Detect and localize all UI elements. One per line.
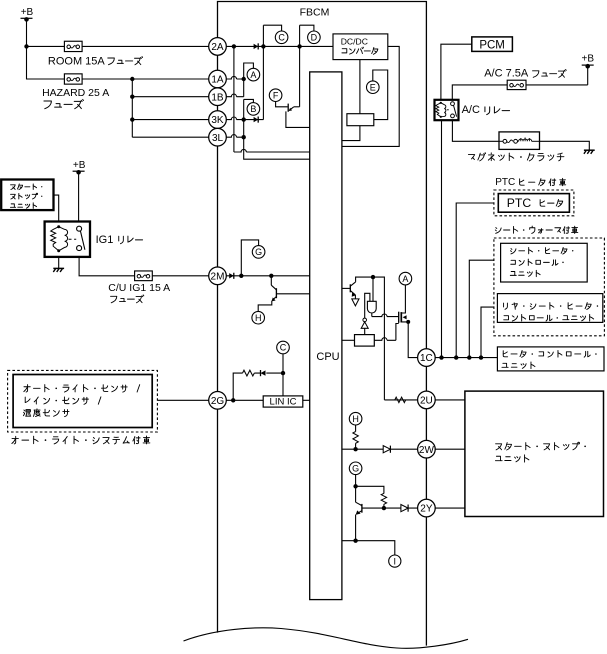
svg-text:2A: 2A (211, 42, 224, 53)
wire: transistor F collector stub from x=299.6 (294, 106, 300, 108)
resistor on 2U line (395, 397, 406, 402)
connector 1B (209, 88, 227, 106)
transistor F emitter arrow (PNP) (290, 107, 293, 110)
wire: sensor box to connector 2G (157, 399, 208, 401)
wire: seat heater control unit lead from 1C row (469, 260, 500, 357)
svg-text:A/C: A/C (462, 104, 480, 116)
ground for IG1 relay (53, 267, 64, 269)
wire: circle F lead to transistor F base (276, 102, 288, 107)
svg-text:G: G (255, 247, 262, 257)
wire: Q3 collector to gate rail y=277.1 (356, 277, 385, 400)
svg-text:H: H (352, 414, 359, 424)
diode after 2M connector (229, 273, 234, 278)
node circle C (top) (275, 31, 288, 44)
wire: transistor Q3 base from CPU (342, 287, 350, 289)
wire: circle H(lower) through resistor to 2W line (355, 425, 357, 449)
svg-text:3L: 3L (212, 133, 224, 144)
svg-text:IG1: IG1 (96, 234, 114, 246)
svg-text:1A: 1A (211, 75, 224, 86)
wire: 2Y row to connector and start-stop unit (384, 507, 418, 509)
svg-text:3K: 3K (211, 115, 224, 126)
internal relay box of DC/DC (347, 114, 374, 126)
wire: row 1A with hop over x=233.9 (226, 76, 243, 79)
heater control unit box (497, 347, 604, 371)
auto-light sensor inner box (13, 375, 152, 428)
svg-text:E: E (370, 82, 376, 92)
wire: circle G(lower) lead, branch to resistor and transistor Q4 (356, 475, 384, 541)
junction dots on +B / HAZARD bus (24, 44, 28, 48)
connector 2G (209, 392, 227, 410)
magnet clutch symbol (contacts and coil) (499, 140, 503, 142)
wire: D-gate output to MOSFET gate with hop over x=384.4 (371, 313, 373, 316)
fuse C/U IG1 15A (135, 271, 153, 281)
svg-text:1C: 1C (420, 353, 433, 364)
wire: Q3 emitter to down-arrow symbol (354, 295, 356, 299)
wire: +B to ROOM fuse and down to HAZARD fuse (27, 20, 209, 79)
PTC dashed box (494, 190, 574, 216)
svg-text:A/C 7.5A: A/C 7.5A (484, 67, 529, 79)
svg-text:+B: +B (582, 54, 595, 65)
A/C relay box (435, 100, 459, 120)
svg-text:2Y: 2Y (420, 504, 433, 515)
seat heater control unit box (501, 243, 588, 282)
wire: stub to circle D and vertical x=299.6 down to transistor F collector (300, 25, 314, 107)
svg-text:HAZARD 25 A: HAZARD 25 A (42, 87, 109, 99)
node circle H (2W) (349, 412, 362, 425)
wire: transistor (2M) base to CPU (276, 293, 309, 295)
wire: gate rail into D-gate and left loop to zener symbol (365, 277, 373, 335)
node circle G (2Y) (349, 462, 362, 475)
node circle A (MOSFET) (399, 272, 412, 285)
wire: DC/DC right side loop to CPU right edge at y=146.4 (342, 46, 399, 146)
wire: row 3L with hop (226, 135, 243, 138)
resistor R1 (gate resistor, box style) leads with hop (342, 339, 355, 341)
wire: IG1 relay feed from start-stop unit box (54, 195, 59, 227)
label auto-light system (12, 436, 150, 444)
page-break wave at bottom (184, 628, 469, 648)
start-stop unit big box (465, 391, 604, 516)
wire: +B through A/C fuse to relay switch (452, 67, 587, 100)
wire: rear seat heater lead from 1C row (481, 307, 497, 358)
svg-text:2M: 2M (211, 271, 225, 282)
svg-text:PCM: PCM (479, 39, 505, 51)
auto-light sensor dashed box (8, 370, 158, 432)
diode on LIN branch (pointing left) (261, 370, 266, 375)
wire: row 3K with hop, diode to x=263.4 (226, 117, 263, 120)
svg-text:H: H (255, 313, 262, 323)
A/C relay coil symbol (436, 103, 441, 117)
PCM box (472, 37, 513, 52)
MOSFET Q5 gate/channel bars (398, 312, 400, 323)
svg-text:B: B (250, 104, 256, 114)
wire: 2U to start-stop unit (435, 399, 465, 401)
resistor on LIN branch (243, 370, 255, 376)
svg-text:F: F (273, 90, 279, 100)
diode on 2Y line (open) (401, 505, 408, 512)
FBCM box outline (open bottom) (218, 2, 427, 646)
wire: 1C row to heater control unit (435, 357, 497, 359)
svg-text:D: D (311, 33, 318, 43)
svg-text:1B: 1B (211, 92, 224, 103)
transistor Q2 at 2M row (275, 288, 277, 298)
wire: 2G row to LIN IC and CPU (226, 399, 309, 401)
wire: transistor F emitter down to CPU at y=127.4 (286, 111, 310, 127)
sensor box text line1 (24, 385, 140, 393)
svg-text:A: A (250, 70, 256, 80)
node circle F (269, 89, 282, 102)
transistor F base bar (287, 104, 289, 112)
node circle E (367, 81, 380, 94)
svg-text:C: C (278, 33, 285, 43)
svg-text:CPU: CPU (316, 351, 339, 363)
wire: IG1 relay switch through C/U IG1 fuse to connector 2M (79, 251, 209, 276)
wire: Q4 base to 2Y line junction (362, 507, 384, 509)
svg-text:I: I (394, 556, 397, 566)
svg-text:PTC: PTC (495, 177, 515, 188)
connector 2A (209, 38, 227, 56)
wire: 2G pull-up branch with resistor and diode to node, stub to circle C and LIN IC top (233, 354, 283, 400)
MOSFET body arrow (403, 315, 407, 319)
DC/DC converter box (333, 34, 388, 60)
wire: 2M row inside FBCM to CPU (226, 275, 309, 277)
wire: DC/DC bottom to internal relay, relay bottom to CPU at y=140.6 (342, 60, 360, 141)
seat warmer dashed box (494, 238, 605, 336)
junction dots row 2A and risers (232, 44, 236, 48)
connector 2Y (418, 499, 436, 517)
svg-text:C/U IG1 15 A: C/U IG1 15 A (108, 282, 170, 294)
wire: circle E loop to relay right side (373, 70, 388, 120)
ground for magnet clutch (584, 149, 595, 151)
node circle B (247, 103, 260, 116)
svg-text:C: C (280, 343, 287, 353)
svg-text:DC/DC: DC/DC (341, 37, 368, 47)
fuse A/C 7.5A (507, 80, 526, 89)
wire: HAZARD bus verticals and rows 1B 3K 3L (132, 79, 209, 137)
wire: ROOM fuse to connector 2A (row y=46.4) and on to DC/DC (82, 45, 333, 47)
IG1 relay box (45, 222, 90, 257)
wire: resistor to connector 2U (384, 399, 417, 401)
svg-text:+B: +B (73, 160, 86, 171)
svg-text:G: G (352, 464, 359, 474)
connector 1A (209, 70, 227, 88)
svg-text:2W: 2W (419, 445, 435, 456)
junction dots on 2M row (239, 274, 243, 278)
zener/reference symbol (circle over open triangle) (363, 318, 367, 322)
wire: 2W row from CPU to connector and start-stop unit (342, 448, 418, 450)
wire: node-B riser x=243.7 (3K/3L) with stub to circle B, down to CPU at y=159.2 (244, 99, 310, 159)
connector 2U (418, 391, 436, 409)
junction dots 2G/LIN (231, 398, 235, 402)
sensor box text line2 (25, 397, 101, 404)
svg-text:FBCM: FBCM (300, 7, 330, 19)
diode on 2A row (254, 44, 259, 49)
wire: bottom row y=540.7 from CPU to circle I (342, 541, 395, 555)
connector 3L (209, 128, 227, 146)
LIN IC box (263, 396, 303, 407)
wire: vertical x=233.9 from 2A junction down, corner right to CPU at y=152 with hop at x=243.7 (233, 46, 235, 152)
wire: stub to circle G from 2M row (241, 240, 258, 276)
svg-text:2U: 2U (420, 396, 433, 407)
wire: node-A riser x=243.7 (1A/1B) with stub to circle A (244, 63, 254, 97)
junction dot on gate rail (371, 275, 375, 279)
wire: A/C relay coil down to 1C row (441, 120, 443, 358)
node circle D (308, 31, 321, 44)
connector 2W (418, 440, 436, 458)
wire: +B into IG1 relay switch (78, 174, 80, 226)
wire: MOSFET drain to circle A, source to 1C (401, 285, 418, 358)
rear seat heater control unit box (497, 294, 602, 323)
diode on 2W line (open) (383, 446, 390, 453)
transistor Q4 (361, 504, 363, 513)
wire: stub to circle C (top) and vertical x=263.4 down to 3K diode node (263, 25, 281, 119)
sensor box text line3 (23, 409, 69, 417)
node circle H (2M) (252, 311, 265, 324)
svg-text:ROOM 15A: ROOM 15A (48, 55, 106, 67)
connector 3K (209, 111, 227, 129)
wire: IG1 relay coil to ground (58, 251, 60, 269)
D-gate (driver) symbol (367, 301, 376, 313)
fuse ROOM 15A (64, 41, 82, 51)
node circle G (2M) (252, 246, 265, 259)
CPU box (310, 72, 342, 600)
label seat warmer variant (495, 226, 578, 233)
wire: PTC heater lead from 1C row (456, 203, 498, 358)
node circle A (top) (247, 68, 260, 81)
fuse HAZARD 25A (64, 74, 82, 84)
svg-text:2G: 2G (211, 396, 225, 407)
connector 1C (418, 349, 436, 367)
transistor Q3 (PNP high-side driver) (349, 284, 351, 292)
resistor on 2Y branch (vertical) (381, 493, 386, 504)
svg-text:A: A (402, 274, 408, 284)
svg-text:PTC: PTC (507, 196, 532, 210)
down arrow symbol (internal supply) (352, 299, 359, 306)
connector 2M (209, 267, 227, 285)
diode on 3K row (254, 117, 259, 122)
PTC heater box (498, 194, 569, 213)
magnet clutch label (468, 153, 564, 161)
wire: PCM to A/C relay coil (441, 44, 472, 100)
wire: A/C relay switch to magnet clutch and ground (452, 120, 589, 150)
svg-text:LIN IC: LIN IC (270, 397, 297, 408)
node circle C (LIN) (277, 341, 290, 354)
A/C relay switch (447, 109, 451, 111)
resistor R1 box (355, 335, 375, 347)
magnet clutch box (499, 132, 540, 150)
node circle I (389, 555, 401, 567)
IG1 relay coil (parallel resistor and inductor) (51, 227, 59, 251)
svg-text:+B: +B (21, 7, 34, 18)
junction dots on 1C row (439, 355, 443, 359)
IG1 relay switch contacts and blade (69, 238, 77, 240)
resistor on H line (vertical) (353, 432, 358, 444)
start-stop unit small box (top left) (1, 180, 53, 211)
wire: row 1B with hop (226, 94, 243, 97)
wire: transistor (2M) collector riser, emitter to circle H (258, 276, 272, 312)
